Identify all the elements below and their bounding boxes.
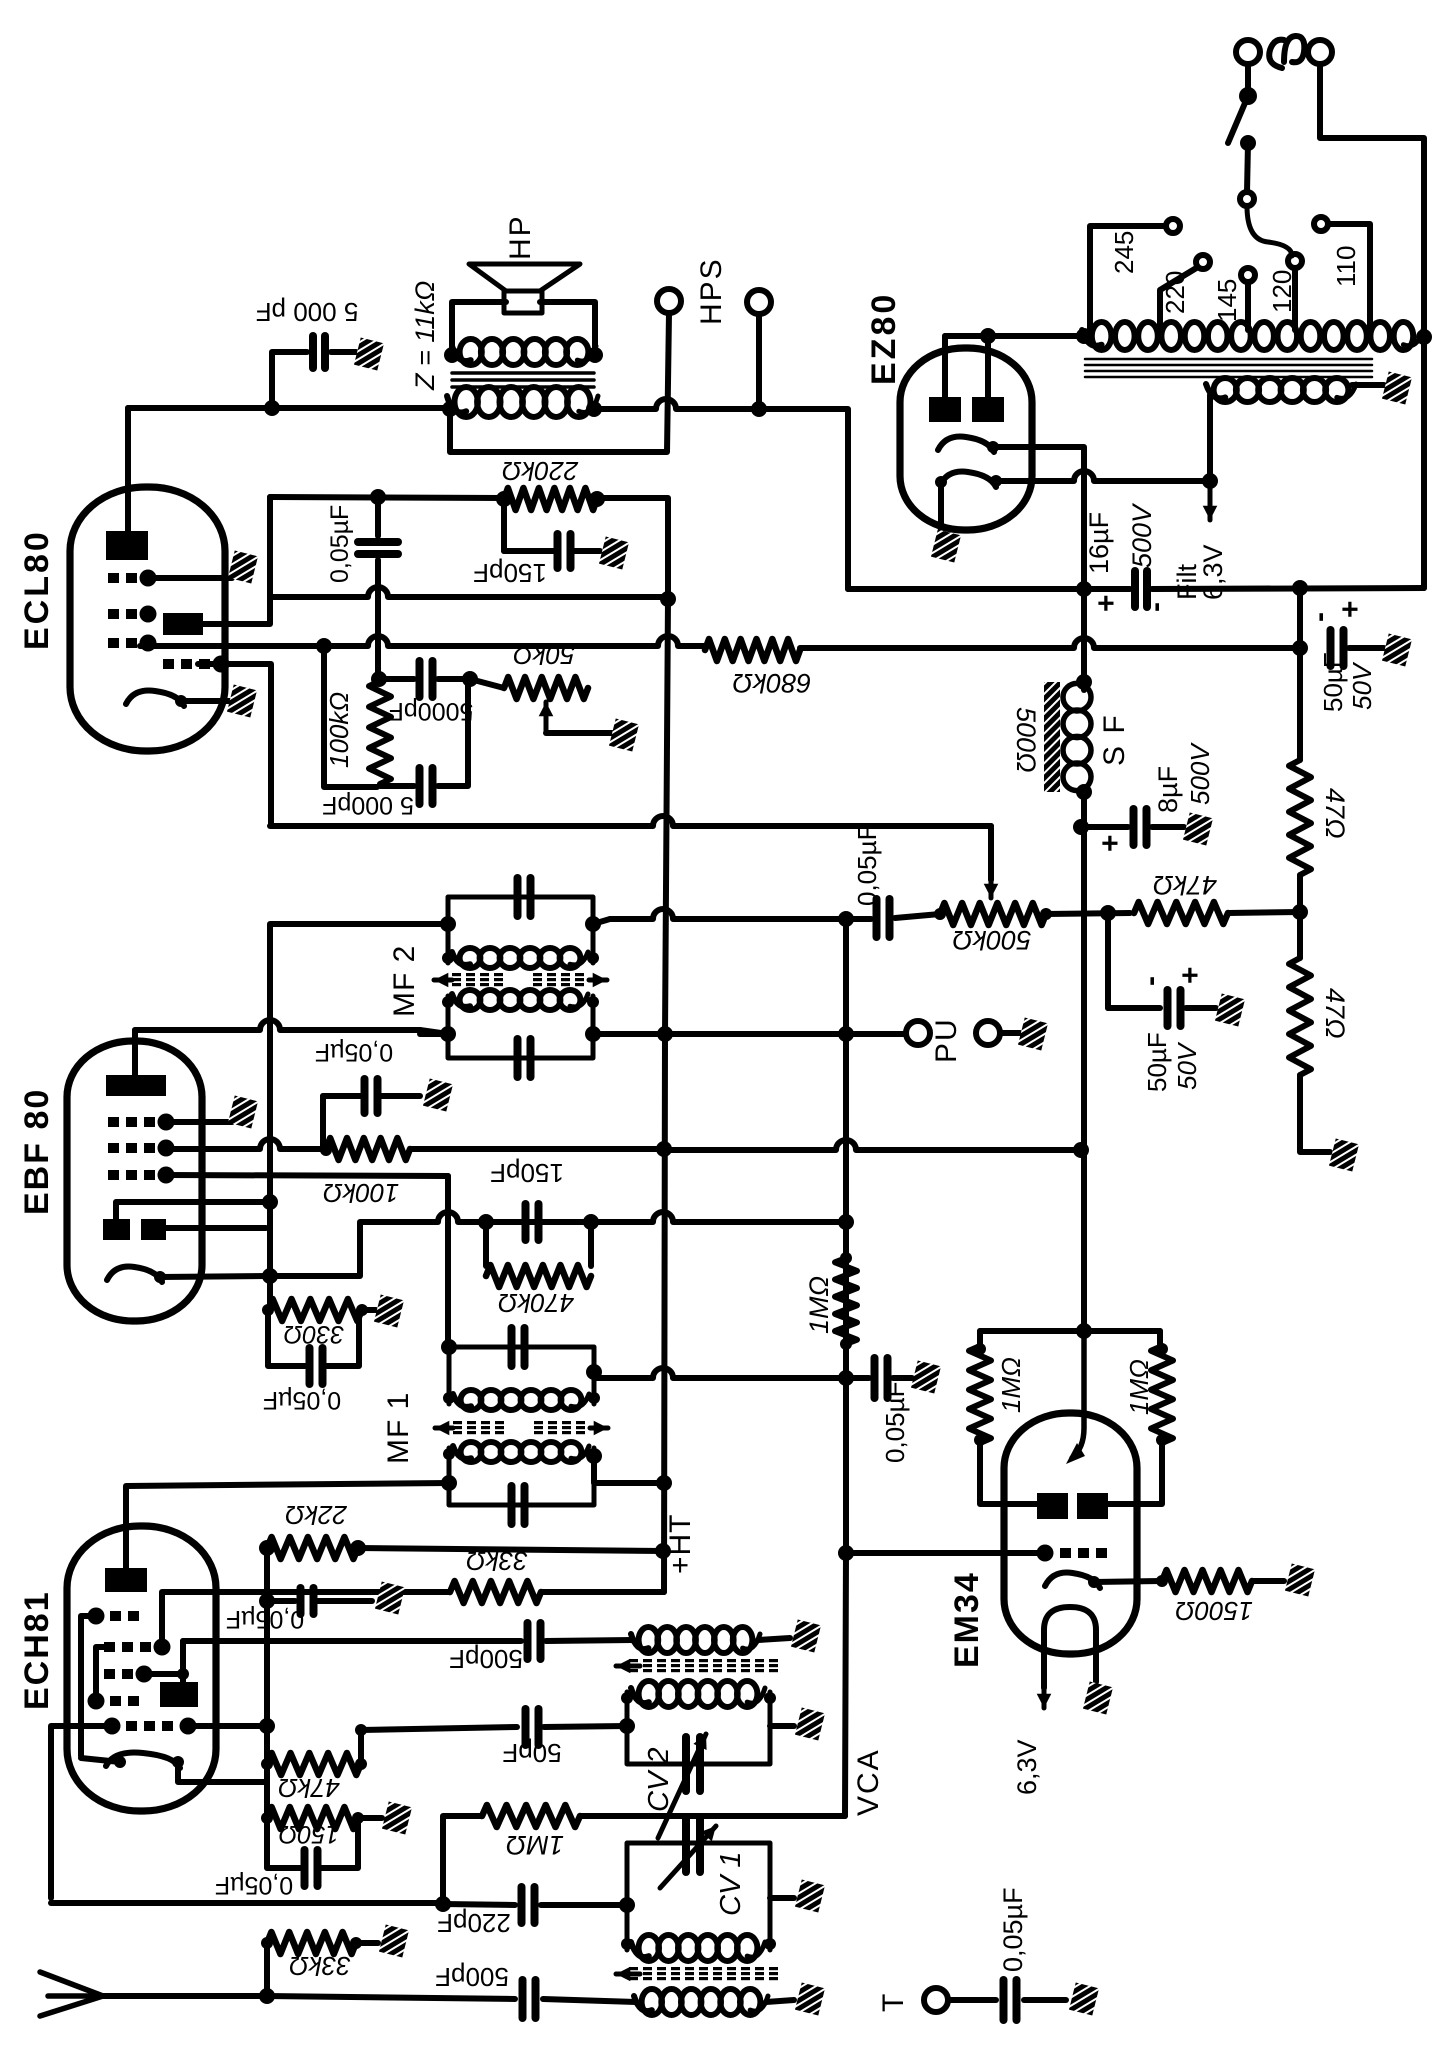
node — [974, 1343, 986, 1355]
wire 0,05µF cath — [267, 1818, 300, 1868]
wire g3 down — [198, 664, 271, 770]
node 150 left — [261, 1812, 273, 1824]
wire anode2 up — [985, 336, 991, 397]
node AVC / PU — [838, 1026, 854, 1042]
wire to 8µF — [1084, 824, 1128, 830]
wire MF2 sec to 0,05µF — [610, 909, 871, 919]
node AVC top junction — [838, 911, 854, 927]
svg-text:500pF: 500pF — [449, 1644, 523, 1674]
wire CV2 to ground — [770, 1723, 794, 1729]
wire down to chassis line — [1297, 588, 1303, 648]
EBF80 diode 1 — [103, 1219, 130, 1240]
svg-text:110: 110 — [1331, 246, 1361, 287]
variable capacitor CV1 — [686, 1818, 700, 1872]
tube ECL80 envelope — [70, 487, 225, 751]
wire 50pF to CV2 — [544, 1726, 627, 1727]
resistor 22kΩ — [267, 1537, 358, 1559]
resistor 150Ω — [267, 1807, 358, 1829]
node CV2 / 50pF — [619, 1718, 635, 1734]
wire switch — [1247, 143, 1248, 192]
tap 220 terminal — [1196, 255, 1210, 269]
wire to 150pF — [501, 499, 507, 551]
wire tap 110 — [1328, 224, 1370, 330]
node 1M top — [840, 1252, 852, 1264]
node — [621, 1938, 633, 1950]
wire screen bypass — [323, 1093, 360, 1099]
capacitor MF1 primary — [512, 1486, 525, 1524]
ECL80 grid g1 — [108, 606, 157, 623]
ground filament winding — [1382, 372, 1412, 405]
svg-text:47Ω: 47Ω — [1320, 988, 1350, 1039]
wire B+ to SF — [1081, 589, 1087, 682]
wire diode2 to cathode bus — [166, 1225, 266, 1231]
antenna core arrow — [616, 1967, 640, 1982]
svg-text:0,05µF: 0,05µF — [852, 825, 882, 906]
filament winding 6,3V — [1206, 378, 1356, 402]
node 1500 left — [1156, 1575, 1168, 1587]
ground 8µF — [1183, 813, 1213, 846]
node MF2 pri right — [585, 1026, 601, 1042]
wiper arrow 50k — [539, 702, 554, 733]
node HT rail top — [660, 591, 676, 607]
EBF80 grid g1 — [108, 1167, 175, 1184]
node screen bypass — [259, 1593, 275, 1609]
svg-text:0,05µF: 0,05µF — [263, 1386, 341, 1414]
wire heater left — [81, 1758, 120, 1762]
wire PU to ground — [1000, 1030, 1020, 1036]
svg-text:EZ80: EZ80 — [865, 292, 903, 385]
node 22k right — [350, 1540, 366, 1556]
resistor 1MΩ EM34 right — [1151, 1346, 1173, 1443]
wire anode to MF1 — [126, 1483, 449, 1568]
wire tone cap — [272, 352, 307, 408]
wire 5000pF lower right — [438, 679, 468, 786]
node 150pF right — [583, 1214, 599, 1230]
resistor 1MΩ EM34 left — [969, 1346, 991, 1443]
wire secondary to speaker right — [540, 302, 595, 355]
node winding right — [1416, 329, 1432, 345]
wire wiper down — [988, 826, 994, 880]
EBF80 cathode — [107, 1267, 162, 1282]
EM34 cathode pin — [1088, 1576, 1100, 1588]
svg-text:50V: 50V — [1347, 661, 1377, 710]
ECH81 grid g5 — [88, 1693, 140, 1710]
node — [587, 952, 599, 964]
wire 100k to rail — [410, 1146, 664, 1152]
node 1M — [435, 1896, 451, 1912]
node MF2 sec left — [440, 916, 456, 932]
EZ80 cathode 2 heater — [940, 472, 996, 487]
ground osc coil — [791, 1620, 821, 1653]
antenna coil — [634, 1989, 768, 2015]
coil MF2 primary — [452, 990, 588, 1010]
wire 1500 to ground — [1252, 1578, 1284, 1584]
EM34 heater — [1044, 1607, 1096, 1650]
node 47ohm junction — [1292, 904, 1308, 920]
svg-text:100kΩ: 100kΩ — [324, 692, 354, 768]
CV1 tank — [627, 1843, 770, 1950]
wire CV1 to ground — [770, 1895, 794, 1901]
wire bus to right rail — [1152, 588, 1424, 589]
wire 47k to 47ohm chain — [1228, 912, 1300, 913]
MF2 tuning arrow right — [589, 973, 607, 988]
ECL80 triode grid — [108, 635, 157, 652]
node antenna — [259, 1988, 275, 2004]
node 33k ant left — [261, 1937, 273, 1949]
ground EZ80 — [931, 530, 961, 563]
tube EBF80 envelope — [67, 1041, 202, 1321]
node 150pF left — [478, 1214, 494, 1230]
wire 220k right down — [597, 498, 668, 599]
coil MF2 secondary — [452, 948, 588, 968]
wire anode1 up — [942, 336, 948, 397]
wire 47k up — [358, 1730, 364, 1764]
node secondary left — [444, 347, 460, 363]
node MF2 sec right — [585, 916, 601, 932]
EZ80 heater pin — [990, 475, 1002, 487]
node — [588, 1448, 600, 1460]
wire AVC bus — [843, 919, 849, 1553]
ECL80 pentode anode — [106, 531, 148, 560]
resistor 47kΩ — [1134, 902, 1228, 924]
wire 1M right top — [1157, 1331, 1163, 1346]
wire to 5000pF upper — [379, 676, 414, 682]
resistor 33kΩ antenna — [267, 1932, 356, 1954]
ground 50µF lower — [1215, 994, 1245, 1027]
node g1 AVC — [259, 1718, 275, 1734]
wire antenna — [100, 1993, 267, 1999]
wire — [327, 1310, 359, 1366]
potentiometer 50kΩ — [504, 677, 588, 699]
capacitor 0,05µF AF — [877, 899, 890, 937]
switch pole — [1239, 87, 1257, 105]
variable capacitor CV2 — [686, 1737, 700, 1791]
wire tap 245 — [1090, 226, 1166, 330]
wire AF line — [270, 816, 991, 826]
osc core — [629, 1659, 778, 1672]
svg-text:T: T — [877, 1994, 910, 2012]
node 33k ant right — [350, 1937, 362, 1949]
wire detector line — [360, 1212, 846, 1222]
ground PU — [1018, 1018, 1048, 1051]
capacitor 50µF 50V upper — [1331, 630, 1344, 666]
svg-text:145: 145 — [1212, 279, 1242, 322]
wire g3 to ground — [166, 1119, 232, 1125]
wire 150 to ground — [358, 1815, 382, 1821]
wire cathode to ground — [181, 698, 230, 704]
node AVC / EM34 — [838, 1545, 854, 1561]
capacitor 220pF — [522, 1887, 535, 1923]
wire g2 to ground — [148, 575, 232, 581]
cathode right pin — [172, 1756, 184, 1768]
node screen feed — [1073, 1142, 1089, 1158]
wire MF1 pri to rail — [594, 1456, 663, 1483]
node MF1 pri in — [441, 1475, 457, 1491]
ground CV2 — [795, 1708, 825, 1741]
wire heater left to ground — [938, 482, 944, 532]
svg-text:22kΩ: 22kΩ — [285, 1500, 348, 1530]
antenna — [40, 1972, 103, 2016]
EM34 target arrow — [1072, 1331, 1084, 1458]
wire screen to 100k — [166, 1139, 326, 1149]
ground 33k antenna — [379, 1925, 409, 1958]
wire mains right rail — [1320, 64, 1424, 336]
arrow Filt — [1203, 481, 1218, 520]
MF1 tuning arrow right — [590, 1421, 608, 1436]
svg-text:1500Ω: 1500Ω — [1175, 1596, 1253, 1626]
wire MF2 sec to detector — [270, 924, 448, 1310]
EM34 anode right — [1077, 1493, 1108, 1519]
node SF top — [1076, 674, 1092, 690]
wire diode1 — [116, 1202, 270, 1219]
capacitor 500pF osc — [528, 1623, 541, 1659]
wire heater right — [1093, 1640, 1099, 1682]
node 220k right — [589, 491, 605, 507]
tap 145 terminal — [1241, 268, 1255, 282]
node — [764, 1938, 776, 1950]
wire EM34 target bus — [980, 1328, 1160, 1334]
MF1 core right — [534, 1421, 585, 1434]
wire 1M right to anode — [1107, 1443, 1162, 1504]
node 330 left — [262, 1304, 274, 1316]
resistor 100kΩ — [369, 681, 391, 784]
tap 120 plug — [1288, 254, 1302, 268]
terminal PU left — [906, 1021, 930, 1045]
EBF80 cathode pin — [154, 1271, 166, 1283]
node anode bus / tone cap — [264, 400, 280, 416]
svg-text:MF 1: MF 1 — [382, 1392, 415, 1464]
svg-text:1MΩ: 1MΩ — [996, 1357, 1026, 1413]
ground 0,05µF ECH81 — [375, 1582, 405, 1615]
resistor 470kΩ — [486, 1265, 591, 1287]
node MF1 sec top — [441, 1339, 457, 1355]
EBF80 grid g2 — [108, 1140, 175, 1157]
wire 0,05µF cathode — [268, 1310, 305, 1366]
ground 150Ω — [382, 1802, 412, 1835]
ECH81 heptode anode — [105, 1568, 147, 1592]
wire pot to 47k — [1046, 913, 1130, 914]
node MF2 pri left — [440, 1026, 456, 1042]
EZ80 anode 1 — [929, 397, 961, 422]
wire tap 120 — [1292, 268, 1298, 330]
wire antenna to 500pF — [267, 1996, 515, 1999]
EZ80 cathode pin — [987, 441, 999, 453]
svg-text:33kΩ: 33kΩ — [466, 1546, 528, 1576]
svg-text:PU: PU — [930, 1017, 963, 1063]
MF1 core left — [453, 1421, 504, 1434]
svg-text:150pF: 150pF — [490, 1158, 564, 1188]
wire coupling cap top — [375, 497, 381, 536]
capacitor 0,05µF T — [1004, 1980, 1017, 2020]
node secondary right — [587, 347, 603, 363]
capacitor 0,05µF coupling — [358, 542, 398, 554]
svg-text:5000pF: 5000pF — [389, 697, 474, 725]
wire to filament winding — [1207, 395, 1213, 481]
svg-text:470kΩ: 470kΩ — [498, 1288, 574, 1318]
node 5000pF right — [462, 671, 478, 687]
svg-text:Z = 11kΩ: Z = 11kΩ — [410, 281, 440, 391]
wire — [320, 1096, 326, 1150]
ECL80 grid g3 — [163, 656, 230, 673]
resistor 47Ω upper — [1289, 760, 1311, 875]
node 47k left — [261, 1758, 273, 1770]
CV2 tank — [627, 1692, 770, 1764]
svg-text:16µF: 16µF — [1084, 512, 1114, 574]
wire 50µF to ground — [1186, 1005, 1216, 1011]
svg-text:8µF: 8µF — [1153, 766, 1183, 813]
field coil SF — [1063, 683, 1091, 790]
wire — [322, 1818, 358, 1868]
node — [443, 1448, 455, 1460]
wire B+ to rectifier bus — [759, 409, 848, 589]
tube ECH81 envelope — [67, 1526, 216, 1811]
svg-text:+: + — [1094, 834, 1127, 852]
wire to 33k — [264, 1943, 270, 1996]
ground tone cap — [354, 338, 384, 371]
node 220k left — [496, 491, 512, 507]
svg-text:50µF: 50µF — [1142, 1032, 1172, 1092]
wire 500pF to osc coil — [546, 1640, 633, 1641]
wire 680k to right rail — [800, 638, 1300, 648]
node pot right — [1040, 908, 1052, 920]
wire cathode — [160, 1276, 268, 1277]
node AVC line — [838, 1214, 854, 1230]
mains plug symbol — [1269, 36, 1304, 68]
wire to 220pF — [443, 1904, 515, 1905]
ECH81 grid g4 — [88, 1608, 140, 1625]
wire 8µF to ground — [1152, 824, 1184, 830]
node MF1 sec out — [586, 1364, 602, 1380]
wire cathode to detector load — [270, 1223, 360, 1276]
svg-text:680kΩ: 680kΩ — [732, 668, 811, 698]
node — [974, 1434, 986, 1446]
node B+ / SF — [1076, 581, 1092, 597]
ground CV1 — [795, 1880, 825, 1913]
node 100k top — [371, 671, 387, 687]
node diode1 — [262, 1194, 278, 1210]
node g2 — [177, 1668, 189, 1680]
node HPS right — [751, 401, 767, 417]
wire 500pF to ant coil — [543, 1999, 636, 2002]
ground screen bypass — [423, 1079, 453, 1112]
ground EM34 heater — [1083, 1682, 1113, 1715]
wire — [1108, 1005, 1160, 1011]
MF2 core left — [452, 973, 503, 986]
capacitor 8µF 500V — [1134, 809, 1147, 845]
svg-text:ECL80: ECL80 — [18, 529, 56, 650]
wire HT rail lower — [664, 1034, 665, 1592]
wire to 100k bottom — [324, 646, 377, 787]
node AVC / MF1 — [838, 1370, 854, 1386]
wire 150pF to ground — [571, 548, 600, 554]
wire g2 — [145, 1671, 183, 1677]
MF2 primary tank — [448, 996, 593, 1058]
node 50µF top — [1292, 640, 1308, 656]
terminal PU right — [976, 1021, 1000, 1045]
svg-text:33kΩ: 33kΩ — [289, 1951, 351, 1981]
svg-text:+HT: +HT — [664, 1513, 697, 1574]
ECL80 cathode — [126, 691, 184, 706]
svg-text:5 000 pF: 5 000 pF — [256, 297, 359, 327]
node 47k right — [355, 1758, 367, 1770]
wire HPS left to primary left — [450, 313, 669, 452]
svg-text:1MΩ: 1MΩ — [804, 1276, 834, 1334]
ground 150pF — [599, 537, 629, 570]
svg-text:6,3V: 6,3V — [1012, 1739, 1042, 1795]
tube EM34 envelope — [1004, 1413, 1137, 1654]
EZ80 cathode2 left pin — [935, 476, 947, 488]
ECL80 triode anode — [163, 613, 203, 635]
resistor 220kΩ — [504, 488, 597, 510]
wire secondary to speaker — [452, 302, 506, 355]
resistor 47Ω lower — [1289, 958, 1311, 1075]
node cathode — [262, 1268, 278, 1284]
CV1 arrow — [660, 1826, 716, 1888]
wire primary to HPS — [594, 399, 759, 409]
wire anodes to mains winding — [945, 333, 1084, 339]
wire 1M left — [443, 1816, 482, 1904]
terminal mains left — [1236, 40, 1260, 64]
wire 33k to HT — [541, 1589, 664, 1595]
ground 50k wiper — [609, 719, 639, 752]
svg-text:+: + — [1334, 600, 1367, 618]
wire to 0,05µF — [267, 1598, 295, 1604]
svg-text:100kΩ: 100kΩ — [323, 1178, 399, 1208]
node — [621, 1692, 633, 1704]
wire 100k bottom to 5000pF lower — [380, 783, 414, 789]
wire mains left — [1245, 64, 1251, 94]
wire cathode to 1500 — [1094, 1581, 1162, 1582]
MF2 tuning arrow left — [434, 973, 452, 988]
wire 47ohm to ground — [1300, 1075, 1330, 1152]
arrow 6,3V — [1037, 1670, 1052, 1708]
svg-text:330Ω: 330Ω — [284, 1320, 345, 1348]
svg-text:47Ω: 47Ω — [1320, 788, 1350, 839]
wire g1 — [166, 1175, 448, 1176]
ground 330 — [374, 1295, 404, 1328]
EBF80 diode 2 — [141, 1219, 166, 1240]
ECH81 grid g1 row — [104, 1718, 197, 1735]
EM34 anode left — [1037, 1493, 1068, 1519]
wire AVC chain vertical — [264, 1548, 270, 1818]
MF1 tuning arrow left — [435, 1421, 453, 1436]
svg-text:1MΩ: 1MΩ — [506, 1830, 564, 1860]
svg-text:500kΩ: 500kΩ — [952, 925, 1031, 955]
wire to 50pF — [361, 1727, 517, 1730]
osc core arrow — [616, 1659, 640, 1674]
transformer core lines — [1085, 359, 1372, 377]
wire MF2 sec out — [593, 919, 610, 924]
node — [1156, 1343, 1168, 1355]
wire to ground — [318, 1598, 372, 1604]
ground 50µF upper — [1382, 634, 1412, 667]
node rail / 22k — [655, 1543, 671, 1559]
node 50µF lower — [1100, 905, 1116, 921]
wire osc coil to ground — [758, 1638, 790, 1640]
mains autotransformer winding — [1082, 322, 1423, 350]
wiper arrow 500k — [984, 860, 999, 898]
ground T — [1069, 1983, 1099, 2016]
tap 245 terminal — [1166, 219, 1180, 233]
svg-text:50kΩ: 50kΩ — [513, 640, 575, 670]
node target bus — [1076, 1323, 1092, 1339]
terminal HPS right — [747, 290, 771, 314]
node coupling cap — [370, 489, 386, 505]
ECL80 grid g2 — [108, 570, 157, 587]
terminal HPS left — [657, 289, 681, 313]
wire tone cap to ground — [331, 349, 356, 355]
wire 50µF to ground — [1349, 645, 1384, 651]
